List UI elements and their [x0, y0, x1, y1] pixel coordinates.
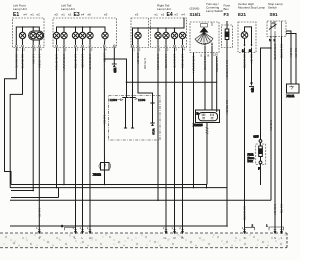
- svg-text:Lamp Unit: Lamp Unit: [157, 7, 171, 11]
- E4 internal bus wire: [133, 18, 185, 46]
- svg-text:U: U: [89, 236, 91, 240]
- switch S16/1 symbol: [195, 22, 213, 53]
- lamp E3 5: [87, 27, 93, 45]
- bus C1 short: [11, 197, 59, 199]
- svg-text:0.5 GY: 0.5 GY: [250, 54, 254, 63]
- lamp E1 dual filament housing: [29, 31, 44, 40]
- svg-text:e4: e4: [81, 13, 85, 17]
- svg-text:e5: e5: [55, 13, 59, 17]
- lamp E3 6: [102, 32, 108, 44]
- wire E4 pin1: [157, 48, 159, 201]
- lamp E3 2: [61, 27, 67, 45]
- svg-text:X26/25: X26/25: [193, 123, 203, 127]
- left horizontal H3: [11, 190, 33, 192]
- svg-text:B: B: [182, 236, 184, 240]
- svg-text:1.5 BR: 1.5 BR: [103, 53, 107, 63]
- strip entry ticks: [38, 229, 283, 231]
- svg-text:e6: e6: [88, 13, 92, 17]
- wire F3 down: [226, 48, 228, 227]
- wire E1 pin3: [32, 48, 34, 191]
- wire E1 pin1 left run: [5, 48, 40, 232]
- wire E3 pin4 to strip: [82, 48, 84, 232]
- lamp E4 1: [155, 28, 161, 45]
- svg-text:Lamp Unit: Lamp Unit: [13, 7, 27, 11]
- svg-text:0.5 GY: 0.5 GY: [289, 48, 293, 57]
- harness strip: [0, 233, 287, 248]
- lamp E4 2: [163, 28, 169, 45]
- wire branch to variant connector and X26/25: [105, 59, 127, 98]
- svg-text:1.5 BK/GN: 1.5 BK/GN: [81, 54, 85, 68]
- ground W6 left: [112, 48, 117, 73]
- strip entry pin numbers: [36, 226, 283, 240]
- lamp E1 dual a: [30, 27, 36, 45]
- pin terminals E1 bottom: [15, 45, 183, 47]
- wire S91 pin3 to strip: [281, 37, 283, 232]
- svg-text:e2: e2: [68, 13, 72, 17]
- wire S91 to fuse F1/1 jog: [261, 48, 272, 140]
- lamp unit E4 box: [151, 18, 187, 48]
- svg-text:0.75 BK/WH: 0.75 BK/WH: [62, 54, 66, 71]
- pin numbers bottom row: [17, 48, 210, 58]
- lamp box e3 right tail inner: [131, 18, 149, 48]
- svg-text:W6: W6: [251, 88, 255, 93]
- svg-text:(S16/6): (S16/6): [190, 7, 200, 11]
- E4 header text: [155, 4, 186, 19]
- E21 header text: [238, 2, 265, 17]
- svg-text:E4: E4: [167, 12, 173, 18]
- svg-text:t2/5: t2/5: [254, 135, 259, 139]
- svg-text:e2: e2: [37, 13, 41, 17]
- connector X36/2: [93, 163, 111, 177]
- wire terminal 150 to X26/25: [216, 56, 218, 82]
- bus C horizontal: [10, 199, 271, 201]
- E3 internal bus wire: [57, 27, 106, 32]
- svg-text:0.75 BK/YE: 0.75 BK/YE: [88, 54, 92, 70]
- node E1 junction: [22, 26, 24, 28]
- svg-text:12/93: 12/93: [110, 98, 118, 102]
- svg-text:E21: E21: [238, 12, 247, 17]
- svg-text:0.75 GY/BK: 0.75 GY/BK: [55, 54, 59, 70]
- svg-text:0.5 GN/YE: 0.5 GN/YE: [21, 54, 25, 68]
- wire E3 pin6 down through connector: [103, 48, 105, 185]
- svg-text:0.5 WH: 0.5 WH: [294, 48, 298, 58]
- svg-text:X21/1: X21/1: [287, 94, 295, 98]
- svg-text:0.5 BK/RD/GY: 0.5 BK/RD/GY: [225, 60, 229, 79]
- svg-text:0.75 BK/GN: 0.75 BK/GN: [156, 54, 160, 70]
- switch S91 symbol: [269, 21, 282, 42]
- wire E21 pin1 to strip: [244, 48, 246, 232]
- svg-text:150: 150: [213, 53, 218, 57]
- svg-text:e1: e1: [62, 13, 66, 17]
- jog 58.5: [58, 188, 60, 198]
- wire E4 pin4 to strip: [182, 48, 184, 232]
- strip entry bracket E21: [245, 227, 255, 230]
- wire E21 pin2 to ground: [251, 48, 253, 86]
- svg-text:1.5 YE: 1.5 YE: [38, 208, 42, 217]
- wire E3 pin5 to strip: [89, 48, 91, 232]
- svg-text:1.5 RD/BK: 1.5 RD/BK: [215, 58, 219, 72]
- link X26/25 corner down: [206, 185, 208, 188]
- svg-text:e4: e4: [24, 13, 28, 17]
- lamp E3 3: [72, 27, 78, 45]
- wire labels rotated mid group: [38, 58, 284, 221]
- wire E1 lamp drop: [22, 27, 24, 32]
- switch S91 box: [267, 21, 286, 37]
- wire E1 pin4 to strip: [38, 48, 40, 232]
- ground connector W16: [152, 103, 154, 123]
- S16/1 header text: [190, 2, 224, 17]
- E1 internal bus wire: [16, 27, 39, 45]
- lamp E1 front: [19, 32, 25, 44]
- wire S16/1 pin2 to X26/25: [211, 53, 213, 111]
- variant box 12/93 and 11/93: [109, 96, 161, 141]
- connector X21/1: [287, 84, 300, 98]
- wire S91 pin2 to strip: [275, 39, 277, 232]
- lamp E4 3: [171, 28, 177, 45]
- bus B horizontal: [10, 187, 227, 189]
- ground W6 right: [249, 83, 255, 93]
- lamp unit E1 box: [13, 18, 45, 48]
- node E3 junctions: [63, 26, 65, 28]
- bus A horizontal: [10, 185, 271, 227]
- switch S16/1 box: [190, 22, 219, 53]
- E1 header text: [13, 4, 40, 19]
- node E4 junctions: [137, 27, 139, 29]
- pin terminals e3 box and E4 bottom: [132, 45, 134, 47]
- wire S16/1 pin1 to X26/25: [204, 53, 206, 111]
- lamp E3 1: [53, 32, 59, 44]
- svg-text:E3: E3: [74, 12, 80, 18]
- svg-text:0.5 BK/RD: 0.5 BK/RD: [243, 54, 247, 69]
- svg-text:e2: e2: [161, 13, 165, 17]
- svg-text:e1: e1: [155, 13, 159, 17]
- lamp E1 dual b: [36, 32, 42, 44]
- E3 header text: [55, 4, 108, 19]
- svg-text:0.5 BK/RD: 0.5 BK/RD: [203, 56, 207, 71]
- svg-text:1.5 YE/BK: 1.5 YE/BK: [38, 54, 42, 68]
- wire S91 pin1: [270, 39, 272, 201]
- connector fork 12/93: [122, 98, 128, 103]
- wire E4 pin3 to strip: [174, 48, 176, 232]
- svg-text:0.5 BK/RD: 0.5 BK/RD: [243, 206, 247, 221]
- svg-text:F3: F3: [224, 12, 230, 17]
- svg-text:1.5 GY/BK: 1.5 GY/BK: [181, 54, 185, 68]
- lamp e3 right tail: [135, 28, 141, 45]
- svg-text:0.5 RD: 0.5 RD: [280, 204, 284, 214]
- wire E3 pin3 to strip: [75, 48, 77, 232]
- bus D horizontal: [10, 225, 227, 227]
- pin terminals E3 bottom: [56, 45, 58, 47]
- svg-text:S: S: [274, 236, 276, 240]
- lamp E4 4: [179, 32, 185, 44]
- svg-text:0.5 RD/GY: 0.5 RD/GY: [225, 100, 229, 115]
- lamp E3 4: [79, 27, 85, 45]
- svg-text:S91: S91: [270, 12, 279, 17]
- node E1 bus junction: [32, 26, 34, 28]
- svg-text:e4: e4: [182, 13, 186, 17]
- strip entry arrows: [38, 231, 283, 234]
- svg-text:Box: Box: [224, 7, 230, 11]
- svg-text:0.75 BK/RD: 0.75 BK/RD: [273, 44, 277, 61]
- wire E1 pin2 left run: [10, 48, 22, 188]
- svg-text:1.5 BK/YE: 1.5 BK/YE: [173, 54, 177, 68]
- strip entry bracket left: [61, 224, 283, 231]
- svg-text:W6: W6: [113, 68, 117, 73]
- svg-text:11/93: 11/93: [138, 98, 146, 102]
- fuse F3: [225, 21, 229, 48]
- svg-text:e3: e3: [104, 13, 108, 17]
- svg-text:Box: Box: [248, 159, 254, 163]
- fuse F1/1: [248, 135, 266, 186]
- svg-text:Mounted Stop Lamp: Mounted Stop Lamp: [238, 6, 265, 10]
- svg-text:0.5 BK/RD: 0.5 BK/RD: [280, 44, 284, 59]
- svg-text:X36/2: X36/2: [93, 173, 101, 177]
- wire e3 box pin2 to W16: [138, 48, 153, 104]
- wire X26/25 output: [206, 123, 208, 185]
- lamp E21 center stop lamp: [241, 27, 252, 53]
- wire E4 pin2 to strip: [165, 48, 167, 232]
- svg-text:E1: E1: [13, 12, 19, 18]
- svg-text:S: S: [244, 236, 246, 240]
- stop lamp E21 box: [238, 22, 256, 53]
- svg-text:W16: W16: [152, 129, 156, 136]
- svg-text:S16/1: S16/1: [190, 12, 202, 17]
- svg-text:F: F: [258, 167, 260, 171]
- svg-text:1.5 BK/RD: 1.5 BK/RD: [164, 54, 168, 69]
- node junctions bottom: [32, 184, 227, 227]
- wire labels rotated top group: [15, 44, 299, 79]
- svg-text:1.5 WH: 1.5 WH: [31, 54, 35, 64]
- connector fork 11/93: [129, 98, 135, 103]
- wire E3 pin2: [63, 48, 65, 185]
- F3 header text: [224, 4, 231, 18]
- svg-text:Lamp Switch: Lamp Switch: [206, 9, 224, 13]
- svg-text:0.75 BK: 0.75 BK: [269, 120, 273, 131]
- svg-text:0.75 RD: 0.75 RD: [143, 58, 147, 70]
- wire S16/1 aux left: [193, 53, 195, 188]
- svg-text:1.5 BK: 1.5 BK: [103, 115, 107, 124]
- svg-text:e3: e3: [175, 13, 179, 17]
- lamp unit E3 box: [53, 18, 116, 48]
- svg-text:Lamp Unit: Lamp Unit: [61, 7, 75, 11]
- svg-text:e1: e1: [31, 13, 35, 17]
- fuse F3 box: [222, 25, 233, 48]
- svg-text:0.75 GY: 0.75 GY: [273, 204, 277, 215]
- svg-text:0.75 BK/WH: 0.75 BK/WH: [192, 56, 196, 73]
- svg-text:Switch: Switch: [268, 6, 277, 10]
- wire e3 box pin1 into variant connector: [132, 48, 134, 98]
- connector X26/25: [193, 110, 220, 185]
- svg-text:e3: e3: [135, 13, 139, 17]
- svg-text:0.75 GY: 0.75 GY: [136, 53, 140, 64]
- strip entry bracket right: [269, 227, 284, 230]
- svg-text:0.5 BK/YE: 0.5 BK/YE: [15, 54, 19, 68]
- svg-text:1.5 GY/RD: 1.5 GY/RD: [74, 54, 78, 69]
- wire S91 right jogs to X21/1: [286, 31, 296, 84]
- wire E3 pin1: [56, 48, 58, 188]
- S91 header text: [268, 2, 283, 17]
